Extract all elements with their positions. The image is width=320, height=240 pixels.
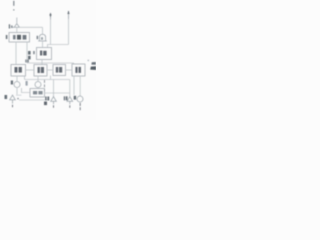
- output arrow dashes right edge: [87, 60, 96, 70]
- wire G bottom right to S3: [79, 76, 81, 96]
- wire rail y79: [25, 79, 70, 81]
- wire F bottom: [50, 76, 52, 80]
- text box E: [38, 67, 45, 73]
- arrow antenna3: [68, 11, 70, 19]
- wire box D to osc O1: [16, 76, 18, 82]
- wire dashed from E: [44, 80, 46, 93]
- wire stub y95: [16, 94, 22, 96]
- wire D-E: [26, 69, 35, 71]
- box A output left: [15, 42, 17, 65]
- label 7: [37, 36, 39, 39]
- text box D: [15, 67, 22, 73]
- box G: [72, 64, 85, 76]
- label 6: [5, 95, 8, 99]
- antenna A1: [12, 24, 20, 28]
- text box G: [75, 67, 81, 73]
- box A TR: [9, 33, 30, 43]
- label 4: [28, 51, 31, 59]
- mixer M1: [39, 34, 45, 41]
- wire antenna base to mixer: [20, 26, 43, 28]
- wire O1 down: [16, 88, 18, 95]
- label 27: [25, 60, 29, 63]
- label N under rail: [44, 102, 47, 106]
- label 16: [64, 96, 68, 100]
- box A output right: [26, 42, 28, 63]
- wire rail y93 right: [45, 92, 70, 94]
- arrow antenna2: [50, 14, 52, 20]
- wire S1 drop: [53, 80, 55, 97]
- wire box C to box E: [41, 60, 43, 65]
- wire antenna feed: [16, 18, 18, 24]
- oscillator O1: [14, 82, 20, 88]
- wire top-left dashed arrow: [13, 1, 15, 11]
- resonator S3: [77, 96, 83, 110]
- box F: [53, 65, 66, 76]
- transducer S2: [67, 97, 73, 108]
- wire E-F: [47, 69, 53, 71]
- arrowhead antenna3: [67, 11, 69, 14]
- box H: [30, 89, 45, 98]
- label 1: [9, 24, 10, 28]
- wire S2 drop: [69, 80, 71, 97]
- text box F: [56, 67, 62, 73]
- oscillator O2: [35, 82, 41, 88]
- wire rail y44: [48, 45, 69, 48]
- wire box E to osc O2: [37, 76, 39, 82]
- label 2: [6, 35, 8, 39]
- text box C: [40, 51, 47, 56]
- wire O2 to box H: [37, 87, 39, 90]
- wire rail y100: [19, 99, 48, 101]
- wire F-G: [66, 69, 73, 71]
- wire G bottom left: [73, 76, 75, 95]
- junction dot: [17, 98, 19, 100]
- box E: [34, 65, 47, 77]
- wire corner to rail y93: [22, 88, 31, 93]
- arrowhead antenna2: [49, 13, 51, 16]
- transducer S1: [51, 97, 57, 108]
- wire rail y63: [27, 63, 74, 65]
- label 5: [11, 81, 13, 85]
- box D: [11, 65, 26, 77]
- text box A TR: [13, 35, 26, 40]
- box C: [37, 48, 52, 60]
- label 12: [74, 96, 76, 100]
- label box C input tick: [33, 51, 35, 54]
- text box H: [33, 91, 43, 94]
- transducer T0: [10, 95, 16, 107]
- wire down to mixer: [42, 27, 44, 34]
- wire antenna to box A: [16, 27, 18, 33]
- label 17: [26, 81, 28, 86]
- label 10: [45, 97, 49, 101]
- wire mixer to box C: [42, 41, 44, 48]
